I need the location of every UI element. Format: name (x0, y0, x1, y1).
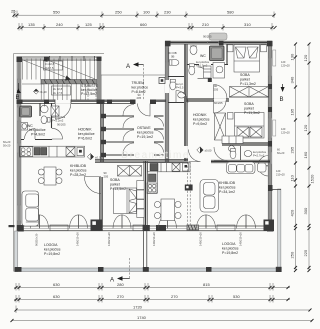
svg-text:9x17,5: 9x17,5 (45, 66, 54, 70)
pillar band x150-166 (150, 100, 156, 105)
pillar right y186 (268, 185, 273, 191)
stairs: under-stair dashed (87, 84, 89, 100)
pillar x156-166 (156, 225, 166, 231)
window left kitchen y143-153 (17, 143, 20, 153)
interior wall y63-66 horizontal x188-228 (187, 64, 228, 66)
wall: ostave left x100-104 (101, 103, 103, 162)
svg-text:120: 120 (281, 127, 286, 131)
svg-text:LOGGIA: LOGGIA (44, 243, 58, 247)
window left wc y107-121 (17, 107, 20, 121)
pillar bottom-left corner (17, 225, 24, 232)
wall: staircase right x97-101 (98, 57, 100, 103)
wall: ostave bottom y159-163 (95, 160, 188, 162)
porch edge vertical (100, 75, 102, 100)
svg-text:50+20: 50+20 (3, 144, 11, 148)
svg-text:210+20: 210+20 (276, 173, 285, 177)
pillar top x219 (219, 41, 224, 46)
dishwasher X left apt (66, 147, 75, 156)
nightstand soba1 left (228, 45, 234, 52)
svg-text:225: 225 (303, 249, 308, 256)
drain mark wc right (208, 78, 212, 82)
window labels right margin (276, 60, 290, 177)
level mark right ±0,00 (197, 147, 203, 153)
bed soba2 (235, 113, 265, 139)
door gap x51.5 y128-139 (50, 128, 53, 139)
level mark left ±0,00 (87, 154, 93, 160)
section A top dashed line (143, 65, 145, 101)
washbasin wc right (190, 46, 197, 55)
door gap ostave x135-150 (135, 99, 150, 103)
svg-text:90/205: 90/205 (57, 123, 66, 127)
dimension col right1 x295.5 (290, 43, 298, 273)
washing machine left bath (51, 106, 59, 116)
window left wall right apt y48-62 (166, 48, 169, 62)
pillar right y85 (268, 84, 272, 89)
kitchen counter right apt (L-shape) (147, 163, 190, 172)
loggia rail pillar x99 (98, 267, 104, 272)
window top wall x207-219 (208, 42, 219, 44)
sofa top right apt (227, 162, 256, 174)
loggia rail pillar x206 (206, 267, 212, 272)
washing machine right apt (204, 66, 212, 78)
connector y189 x272-281 (272, 189, 281, 191)
shelf column soba-mid (137, 181, 144, 190)
svg-text:Dreamstime: Dreamstime (121, 150, 190, 161)
svg-text:P=34,1m2: P=34,1m2 (219, 190, 235, 194)
ostave door arcs cell3 (123, 130, 134, 141)
window labels left margin rotated (3, 140, 11, 148)
wall living-right top y160-163 x211-272 (211, 161, 270, 163)
sill window rect x50-68 (50, 225, 68, 231)
svg-text:310: 310 (244, 22, 251, 27)
sofa left apt (22, 191, 39, 226)
wall: left outer x17-21 (18, 57, 20, 231)
svg-text:parket: parket (244, 107, 254, 111)
svg-text:ker.pločice: ker.pločice (78, 132, 95, 136)
svg-text:P=1,5m2: P=1,5m2 (196, 64, 208, 68)
svg-text:=1,40: =1,40 (40, 90, 48, 94)
sill window rect x133-145 (133, 225, 145, 231)
chairs left apt table (38, 169, 44, 175)
svg-text:660: 660 (140, 22, 147, 27)
eave line top-left (14, 53, 104, 55)
dimension row top1 (11, 9, 276, 19)
french door arcs pair x69-88 (70, 215, 79, 229)
wardrobe soba2 tall (215, 113, 226, 140)
svg-text:90/210+20: 90/210+20 (35, 233, 39, 246)
french door arcs pair x196-216 (197, 215, 207, 229)
dimension row top2 (18, 22, 277, 31)
loggia left rail x14-18 y231-272 (15, 231, 18, 272)
porch pillar marker (159, 78, 165, 84)
svg-text:120: 120 (303, 54, 308, 61)
washbasin bath2 (244, 151, 252, 157)
eave line left (13, 54, 15, 272)
french door arcs pair x30-49 (31, 215, 40, 229)
door gap y100 x214-226 (214, 98, 226, 101)
svg-text:B: B (280, 97, 284, 103)
pillar stair mid top (44, 57, 49, 62)
armchair right apt (258, 163, 267, 172)
door gap y64.5 x199-211 (199, 63, 211, 66)
svg-text:1520: 1520 (310, 174, 315, 184)
nightstand soba1 right (261, 45, 267, 52)
svg-text:SOBA: SOBA (244, 102, 254, 106)
wall soba-mid right x141.8-145.2 y161-231 (145, 161, 147, 231)
svg-text:WC: WC (200, 54, 206, 58)
svg-text:130: 130 (290, 53, 295, 60)
svg-text:0B: 0B (171, 55, 175, 59)
french door arcs pair x158-177 (159, 215, 168, 229)
svg-text:630: 630 (53, 282, 60, 287)
svg-text:P=3,5: P=3,5 (176, 86, 184, 90)
svg-text:250: 250 (290, 251, 295, 258)
svg-text:120: 120 (276, 169, 281, 173)
door arc hodnik-living (189, 150, 201, 162)
pillar band x96 (97, 100, 105, 105)
svg-text:815: 815 (203, 282, 210, 287)
pillar band x130 (130, 100, 136, 105)
wall bathroom2 horizontal y142-146 x222-270 (222, 143, 270, 145)
svg-text:SOBA: SOBA (110, 178, 120, 182)
svg-text:P=11,3m2: P=11,3m2 (240, 82, 256, 86)
svg-text:ker.pločice: ker.pločice (70, 169, 87, 173)
svg-text:60/205: 60/205 (214, 101, 223, 105)
wall: staircase top y57 (17, 56, 102, 58)
svg-text:ker.pločice: ker.pločice (219, 186, 236, 190)
svg-text:120+20: 120+20 (281, 131, 290, 135)
svg-text:9x 17,5: 9x 17,5 (53, 91, 63, 95)
svg-text:ker.pločice: ker.pločice (222, 247, 239, 251)
svg-text:P=6,0m2: P=6,0m2 (78, 137, 92, 141)
ostave door arcs cell2 (123, 117, 134, 128)
toilet strip lower (170, 81, 176, 90)
door arc soba2 entry (214, 101, 227, 114)
window left living y205-221 (17, 205, 20, 221)
svg-text:±0,00: ±0,00 (205, 149, 212, 153)
svg-text:110: 110 (290, 174, 295, 181)
loggia rail pillar left (15, 267, 22, 272)
toilet below wall y64 (189, 66, 195, 75)
shower right apt (210, 46, 225, 61)
svg-text:KH/BL/DB: KH/BL/DB (219, 181, 236, 185)
dimension row bottomB y299 (14, 294, 290, 303)
counter divisions (48, 146, 50, 157)
svg-text:140/210+20: 140/210+20 (199, 232, 203, 246)
svg-text:OSTAVE: OSTAVE (137, 126, 151, 130)
svg-text:parket: parket (240, 78, 250, 82)
window mullion ticks top wall (59, 56, 61, 61)
bed soba-mid (114, 188, 137, 214)
right wall casement window arcs y155-176 (258, 156, 268, 166)
svg-text:420: 420 (290, 209, 295, 216)
eave line porch top (101, 74, 165, 76)
svg-text:240: 240 (56, 22, 63, 27)
svg-text:parket: parket (110, 183, 120, 187)
wall: right block top y41-44 (165, 42, 272, 44)
wc-left interior: wall x39-41 y104-117 (39, 103, 41, 116)
svg-text:HODNIK: HODNIK (193, 113, 207, 117)
bed soba1 (234, 45, 260, 73)
wall soba1 south y98.6-101.4 x186-229 (186, 99, 229, 101)
svg-text:250: 250 (115, 10, 122, 15)
shower left apt (20, 106, 32, 117)
sink left apt (34, 148, 40, 156)
svg-text:120+20: 120+20 (281, 64, 290, 68)
stair label box 2 (52, 86, 71, 95)
svg-text:1720: 1720 (133, 305, 143, 310)
pillar top x165 (165, 41, 171, 47)
dimension row bottomD y320.5 (11, 315, 314, 322)
door gap stairs-hall x55-71 (55, 99, 71, 103)
svg-text:140/210+20: 140/210+20 (152, 232, 156, 246)
svg-text:25: 25 (11, 9, 16, 14)
door arc stairs-hall (55, 104, 71, 120)
french door arcs pair x113-131 (113, 215, 122, 229)
stair label box 1 (44, 61, 63, 70)
dimension row bottomC y310 (15, 305, 312, 314)
outside sill right window2 (273, 120, 276, 136)
svg-text:KH/BL/DB: KH/BL/DB (70, 164, 87, 168)
ostave partition 2 (104, 128, 134, 130)
pillar x145-152 (143, 225, 150, 231)
section B left marker (17, 88, 21, 93)
pillar band x107 (107, 100, 112, 105)
svg-text:530: 530 (233, 294, 240, 299)
ostave door arc cell1 left (123, 105, 134, 116)
svg-text:P=28,2m2: P=28,2m2 (70, 173, 86, 177)
wall sink left wc (21, 123, 28, 131)
door gap left wall right apt y80-93 (165, 80, 169, 93)
door arc soba-mid (swings into living) (84, 177, 101, 194)
stairs: lower flight treads (44, 84, 85, 100)
svg-text:580: 580 (227, 10, 234, 15)
svg-text:ker.pločice: ker.pločice (137, 131, 154, 135)
wardrobe soba1 (230, 87, 269, 98)
ostave door arcs cell4 (123, 143, 134, 154)
stove left apt (20, 147, 33, 157)
svg-text:P=12,5m2: P=12,5m2 (81, 92, 97, 96)
interior wall wc block vertical x186-190 (185, 44, 187, 161)
svg-text:ker.pločice: ker.pločice (29, 128, 46, 132)
svg-text:HODNIK: HODNIK (78, 128, 92, 132)
section A mid dashed lines in living (186, 162, 188, 225)
svg-text:P=19,8m2: P=19,8m2 (222, 251, 238, 255)
svg-text:120: 120 (303, 124, 308, 131)
dining table right apt (161, 199, 175, 221)
door arc bathroom1 entry (up) (214, 85, 228, 99)
interior wall y101-104 x165-188 (168, 102, 185, 104)
svg-text:125: 125 (85, 22, 92, 27)
building corner pillar bottom right (267, 225, 274, 232)
svg-text:140/210+20: 140/210+20 (76, 232, 80, 246)
ostave entry door arc from top (138, 104, 151, 117)
wall: band y100-104 from x17 to x166 (17, 100, 166, 102)
door gap soba-mid left wall (99, 164, 103, 178)
svg-text:140/210+20: 140/210+20 (239, 232, 243, 246)
window left stair y62-79 (17, 62, 20, 79)
svg-text:205: 205 (137, 96, 142, 100)
stool soba2 (229, 146, 235, 152)
stairs: landing hatched strip y79-84 (41, 80, 97, 84)
interior wall y75-78 x165-188 (168, 76, 185, 78)
svg-text:LOGGIA: LOGGIA (222, 242, 236, 246)
pillar band left (17, 100, 23, 105)
svg-text:P=9,0m2: P=9,0m2 (193, 122, 207, 126)
door arc wc right (198, 67, 210, 79)
svg-text:135: 135 (28, 22, 35, 27)
desk soba2 (222, 136, 243, 144)
pillar right y108 (268, 107, 272, 112)
svg-text:550: 550 (53, 10, 60, 15)
svg-text:60+20: 60+20 (3, 140, 11, 144)
door gap in x188 wall y146-158 (184, 146, 188, 158)
ostave partition 3 (104, 141, 134, 143)
sill window rect x217-235 (217, 225, 235, 231)
ostave partition 4 (104, 154, 134, 156)
stairs: upper flight treads (23, 59, 95, 80)
wall: right outer x268-272 (269, 41, 271, 232)
bottom window wall y225.5-231 x17-272 (17, 225, 272, 227)
porch entry step (209, 33, 227, 40)
toilet bath2 (230, 150, 236, 158)
svg-text:100: 100 (143, 10, 150, 15)
svg-text:P=11,3m2: P=11,3m2 (244, 111, 260, 115)
section A bottom dashed + marker (129, 258, 131, 279)
door arc trijem entry (176, 91, 188, 103)
door arc bath2 entry (214, 147, 228, 161)
svg-text:270: 270 (171, 294, 178, 299)
pillar top-left corner (17, 57, 23, 63)
svg-text:SOBA: SOBA (240, 73, 250, 77)
french door arcs pair x236-256 (237, 215, 247, 229)
loggia divider x143-147 y231-268 (142, 231, 144, 268)
svg-text:TRIJEM: TRIJEM (132, 81, 145, 85)
door arc bath left (52, 128, 63, 139)
washbasin strip lower (178, 92, 186, 98)
wc-left interior: wall x50-53 y104-141 (51, 103, 53, 140)
dimension row bottomA y287 (14, 282, 290, 291)
svg-text:280: 280 (117, 282, 124, 287)
ostave partition stubs on left wall (101, 114, 106, 118)
svg-text:±0,00: ±0,00 (95, 156, 102, 160)
svg-text:1740: 1740 (137, 315, 147, 320)
window right wall y118-138 (269, 118, 272, 138)
washbasin circle left bath (41, 105, 49, 113)
tick left wall y226 (9, 225, 15, 227)
window right wall y58-76 (269, 58, 272, 76)
nightstand soba2 (228, 113, 234, 120)
outside sill right window1 (273, 50, 276, 66)
svg-text:120: 120 (281, 60, 286, 64)
svg-text:B: B (16, 95, 20, 101)
kitchen counter left apt (19, 146, 84, 157)
door arc wc left (25, 129, 36, 140)
toilet left bath (41, 116, 47, 124)
svg-text:630: 630 (53, 294, 60, 299)
svg-text:90/205: 90/205 (203, 35, 212, 39)
svg-text:ker.pločice: ker.pločice (44, 248, 61, 252)
wall bathroom2 divider x240.5 y146-160 (240, 146, 242, 160)
svg-text:P=19,8m2: P=19,8m2 (44, 252, 60, 256)
svg-text:205: 205 (104, 175, 109, 179)
svg-text:P=4,9m2: P=4,9m2 (31, 133, 45, 137)
wardrobe soba-mid (118, 166, 142, 177)
pillar band x44 (44, 100, 49, 105)
svg-text:205: 205 (214, 88, 219, 92)
svg-text:ker.pločice: ker.pločice (132, 86, 149, 90)
svg-text:340: 340 (290, 76, 295, 83)
ostave partition 1 (104, 115, 134, 117)
column marker right x263-274 (264, 220, 275, 232)
svg-text:295: 295 (290, 146, 295, 153)
svg-text:P=13,5m2: P=13,5m2 (110, 187, 126, 191)
section B right marker (281, 87, 285, 92)
stair entry hall line (22, 83, 44, 85)
hatched sill x186-199 (187, 225, 200, 231)
column marker black x90-102 (91, 220, 103, 231)
loggia rail pillar right (276, 267, 282, 272)
pillar top-right corner (267, 41, 273, 47)
toilet strip upper (170, 59, 179, 65)
svg-text:195: 195 (290, 108, 295, 115)
bathtub right apt (213, 63, 225, 79)
svg-text:230: 230 (164, 10, 171, 15)
svg-text:ker.pločice: ker.pločice (193, 118, 210, 122)
loggia right rail x277-281 y189-272 (278, 189, 281, 272)
window labels bottom wall rotated (35, 232, 243, 246)
svg-text:210: 210 (202, 22, 209, 27)
wall soba-mid left x99-103 y177-231 (100, 177, 102, 231)
svg-text:60+20: 60+20 (277, 151, 285, 155)
dimension col right2 x309 (303, 43, 315, 273)
interior wall shower right x225-229 (226, 44, 228, 64)
window right wall y152-164 (269, 152, 272, 164)
svg-text:P=19,1m2: P=19,1m2 (137, 135, 153, 139)
svg-text:270: 270 (117, 294, 124, 299)
big sofa right apt (200, 180, 219, 213)
dining table left apt (44, 167, 56, 185)
pillar right y142 (268, 141, 272, 147)
svg-text:160: 160 (303, 151, 308, 158)
beam marker on section line (185, 185, 193, 191)
loggia bottom rail y267.5-271.5 x14-281 (15, 268, 281, 272)
svg-text:140/210+20: 140/210+20 (107, 232, 111, 246)
svg-text:P=2,7m2: P=2,7m2 (253, 154, 265, 158)
svg-text:300: 300 (303, 207, 308, 214)
wall: right block left x165-169 (166, 41, 168, 162)
wc-left wall y138-141 x17-52 (21, 139, 52, 141)
loggia rail pillar x142 (143, 267, 149, 272)
pillar stair right top (97, 57, 102, 62)
door gap y139.5 x24-35 (24, 138, 35, 141)
wall wardrobe line y97 x229-269 (229, 96, 269, 98)
stair level mark (34, 89, 39, 94)
stairs: flight diagonal with arrow (23, 60, 70, 79)
